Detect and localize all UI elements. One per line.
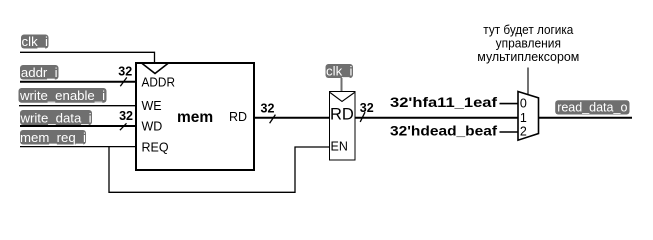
svg-text:мультиплексором: мультиплексором: [477, 49, 579, 64]
svg-text:32'hdead_beaf: 32'hdead_beaf: [390, 123, 497, 139]
svg-text:ADDR: ADDR: [142, 76, 176, 90]
svg-text:read_data_o: read_data_o: [557, 100, 627, 114]
svg-text:RD: RD: [229, 110, 247, 124]
svg-text:32'hfa11_1eaf: 32'hfa11_1eaf: [390, 94, 497, 110]
svg-text:32: 32: [118, 64, 132, 78]
svg-text:mem_req_i: mem_req_i: [20, 130, 86, 145]
svg-text:RD: RD: [330, 106, 354, 124]
svg-text:write_data_i: write_data_i: [19, 110, 91, 125]
svg-text:clk_i: clk_i: [326, 63, 352, 78]
svg-text:32: 32: [261, 102, 275, 116]
svg-text:clk_i: clk_i: [22, 34, 48, 49]
svg-text:32: 32: [360, 101, 374, 115]
svg-text:mem: mem: [177, 109, 213, 126]
svg-text:REQ: REQ: [142, 141, 169, 155]
svg-text:write_enable_i: write_enable_i: [19, 88, 105, 103]
svg-text:0: 0: [520, 97, 527, 111]
svg-text:EN: EN: [331, 140, 348, 154]
svg-text:addr_i: addr_i: [21, 65, 58, 80]
svg-text:WE: WE: [142, 99, 162, 113]
svg-text:32: 32: [119, 109, 133, 123]
svg-text:WD: WD: [142, 120, 163, 134]
svg-text:2: 2: [520, 125, 527, 139]
svg-text:1: 1: [520, 111, 527, 125]
